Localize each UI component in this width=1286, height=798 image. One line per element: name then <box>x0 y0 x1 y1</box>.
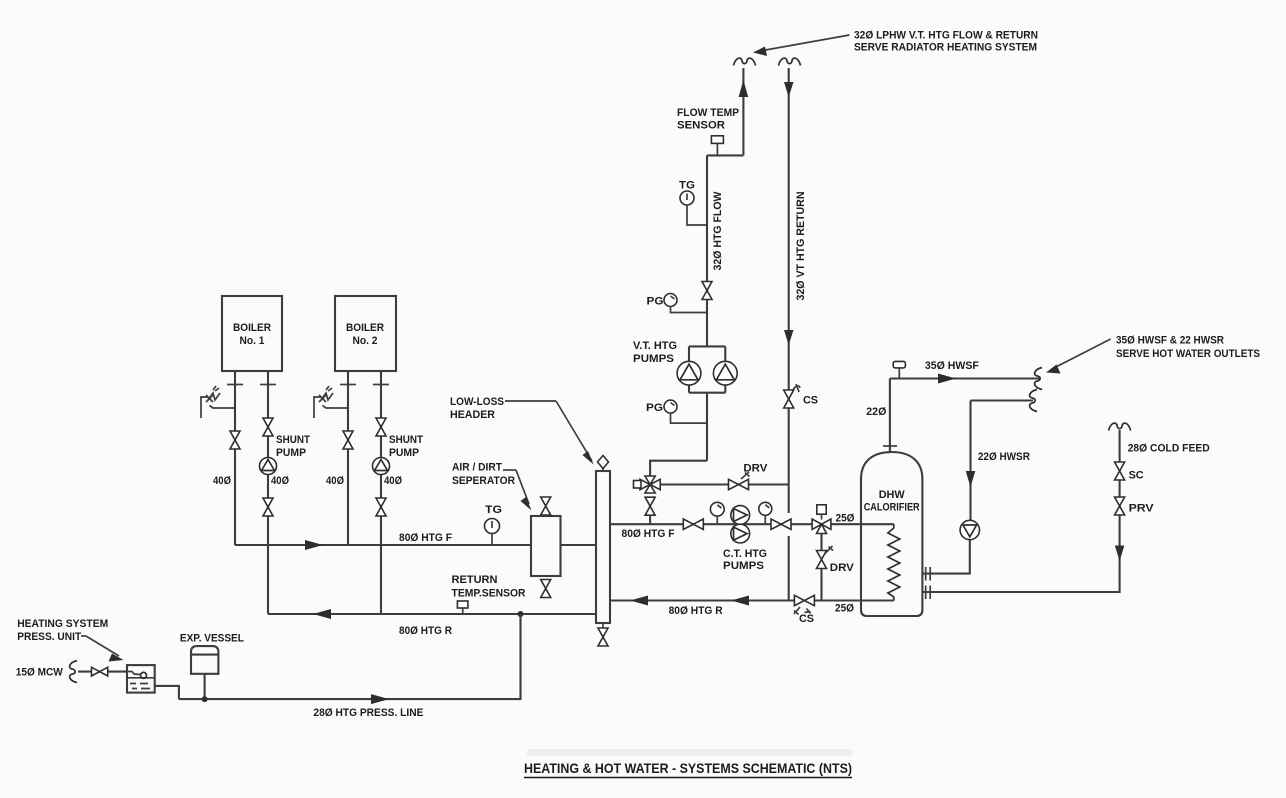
svg-text:SHUNT: SHUNT <box>276 434 310 446</box>
svg-text:DRV: DRV <box>743 463 768 475</box>
svg-text:SHUNT: SHUNT <box>389 434 423 446</box>
svg-text:DRV: DRV <box>830 562 855 574</box>
svg-text:28Ø COLD FEED: 28Ø COLD FEED <box>1128 443 1210 455</box>
svg-text:HEATING SYSTEM: HEATING SYSTEM <box>17 618 108 630</box>
svg-text:AIR / DIRT: AIR / DIRT <box>452 462 502 474</box>
svg-text:DHW: DHW <box>879 489 906 501</box>
svg-text:40Ø: 40Ø <box>213 475 231 487</box>
svg-text:80Ø HTG F: 80Ø HTG F <box>622 528 675 540</box>
svg-text:32Ø LPHW V.T. HTG FLOW & RETU: 32Ø LPHW V.T. HTG FLOW & RETURN <box>854 30 1038 42</box>
svg-text:TG: TG <box>485 504 502 516</box>
svg-text:PRV: PRV <box>1129 503 1155 515</box>
svg-text:32Ø VT HTG RETURN: 32Ø VT HTG RETURN <box>795 191 807 300</box>
svg-text:15Ø MCW: 15Ø MCW <box>16 667 64 679</box>
svg-text:40Ø: 40Ø <box>271 475 289 487</box>
svg-text:SC: SC <box>1129 470 1144 482</box>
svg-text:PUMP: PUMP <box>276 447 306 459</box>
svg-text:CS: CS <box>799 613 814 625</box>
svg-text:No. 1: No. 1 <box>240 335 265 347</box>
svg-text:V.T. HTG: V.T. HTG <box>633 340 677 352</box>
svg-text:HEATING & HOT WATER - SYSTEMS: HEATING & HOT WATER - SYSTEMS SCHEMATIC … <box>524 760 852 776</box>
svg-text:35Ø HWSF: 35Ø HWSF <box>925 360 979 372</box>
svg-text:BOILER: BOILER <box>233 322 271 334</box>
svg-text:SEPERATOR: SEPERATOR <box>452 475 515 487</box>
svg-text:28Ø HTG PRESS. LINE: 28Ø HTG PRESS. LINE <box>313 707 423 719</box>
svg-text:SERVE HOT WATER OUTLETS: SERVE HOT WATER OUTLETS <box>1116 348 1260 360</box>
svg-text:22Ø HWSR: 22Ø HWSR <box>978 451 1030 463</box>
svg-text:PG: PG <box>647 296 664 308</box>
svg-text:32Ø HTG FLOW: 32Ø HTG FLOW <box>712 191 724 271</box>
svg-text:PG: PG <box>646 402 663 414</box>
svg-text:RETURN: RETURN <box>452 574 498 586</box>
svg-text:80Ø HTG R: 80Ø HTG R <box>669 605 723 617</box>
svg-text:C.T. HTG: C.T. HTG <box>723 548 767 560</box>
svg-text:25Ø: 25Ø <box>836 513 855 525</box>
svg-text:No. 2: No. 2 <box>353 335 378 347</box>
svg-text:PRESS. UNIT: PRESS. UNIT <box>17 631 81 643</box>
svg-text:25Ø: 25Ø <box>835 603 854 615</box>
svg-text:35Ø HWSF & 22 HWSR: 35Ø HWSF & 22 HWSR <box>1116 335 1224 347</box>
svg-text:CS: CS <box>803 395 818 407</box>
svg-text:HEADER: HEADER <box>450 409 495 421</box>
svg-text:EXP. VESSEL: EXP. VESSEL <box>180 633 244 645</box>
svg-text:BOILER: BOILER <box>346 322 384 334</box>
svg-text:TEMP.SENSOR: TEMP.SENSOR <box>452 588 526 600</box>
svg-text:PUMPS: PUMPS <box>723 560 764 572</box>
svg-text:CALORIFIER: CALORIFIER <box>864 502 920 514</box>
svg-text:22Ø: 22Ø <box>866 406 886 418</box>
svg-text:LOW-LOSS: LOW-LOSS <box>450 396 504 408</box>
svg-text:FLOW TEMP: FLOW TEMP <box>677 107 739 119</box>
svg-text:SERVE RADIATOR HEATING SYSTEM: SERVE RADIATOR HEATING SYSTEM <box>854 42 1037 54</box>
svg-text:PUMPS: PUMPS <box>633 353 674 365</box>
svg-text:PUMP: PUMP <box>389 447 419 459</box>
svg-text:80Ø HTG R: 80Ø HTG R <box>399 625 452 637</box>
svg-text:40Ø: 40Ø <box>384 475 402 487</box>
svg-text:40Ø: 40Ø <box>326 475 344 487</box>
svg-text:SENSOR: SENSOR <box>677 120 725 132</box>
svg-text:80Ø HTG F: 80Ø HTG F <box>399 532 452 544</box>
svg-text:TG: TG <box>679 180 695 192</box>
